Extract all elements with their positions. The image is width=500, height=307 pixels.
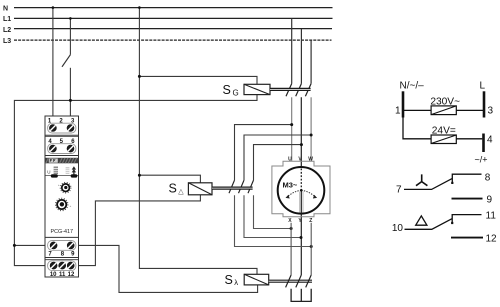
svg-text:10: 10: [392, 223, 404, 234]
contactor coil SD: [188, 183, 212, 195]
delta branch V to column C: [254, 145, 302, 181]
node delta branch V: [300, 143, 303, 146]
front panel indicators: [46, 166, 79, 177]
SD linkage: [212, 187, 253, 190]
svg-text:3: 3: [488, 106, 494, 117]
timer module PCG-417 body: [45, 116, 79, 277]
bus L1: [3, 16, 333, 23]
svg-text:PCG-417: PCG-417: [51, 229, 73, 235]
SA contact 3 arm: [306, 275, 312, 287]
contact 9 stub: [452, 198, 483, 200]
wire SD contact2 output to Y: [244, 195, 301, 237]
node X junction: [290, 227, 293, 230]
bus L3: [3, 38, 332, 45]
wire X column: [290, 223, 292, 275]
phase column L1 upper: [291, 18, 293, 83]
wire 1 down to 24V branch: [403, 110, 482, 138]
star symbol: [416, 174, 427, 185]
knob 1: [58, 182, 71, 193]
contact 12 stub: [451, 237, 483, 239]
wire SD coil top feed: [139, 175, 200, 183]
phase column L3 upper: [310, 40, 312, 83]
svg-text:L1: L1: [3, 16, 11, 23]
SG contact 1 arm: [286, 84, 292, 97]
switch blade: [62, 55, 70, 67]
node Z junction: [310, 245, 313, 248]
svg-text:230V~: 230V~: [430, 96, 460, 107]
motor M1 circle: [278, 167, 325, 214]
node N tap long feed: [138, 6, 141, 9]
supply element 24V: [431, 126, 456, 144]
bus L2: [3, 27, 332, 34]
label S lambda: [225, 273, 239, 287]
svg-text:12: 12: [486, 233, 498, 244]
svg-text:11: 11: [59, 272, 66, 278]
delta branch W to column B: [244, 135, 311, 180]
svg-text:9: 9: [487, 194, 493, 205]
svg-text:4: 4: [487, 135, 493, 146]
module label strip: [45, 158, 78, 164]
wire 1 to 3: [404, 109, 483, 111]
star point shorting bracket: [291, 289, 311, 302]
svg-text:N: N: [3, 5, 8, 12]
terminal bar 4: [484, 134, 494, 153]
svg-text:L3: L3: [3, 38, 11, 45]
contactor coil SA (star): [244, 274, 269, 285]
SG linkage: [270, 88, 311, 91]
svg-text:S: S: [169, 181, 177, 195]
label S delta: [169, 181, 185, 195]
svg-text:λ: λ: [234, 278, 238, 287]
wire SD contact3 output to X: [254, 195, 292, 228]
wire terminal 9 to SA coil bottom: [75, 245, 258, 292]
SD contact 2 arm: [239, 180, 245, 193]
delta branch U to column A: [235, 125, 292, 181]
wire L1 to switch: [69, 18, 71, 54]
svg-text:10: 10: [50, 272, 57, 278]
SG contact 3 arm: [305, 84, 311, 97]
terminal screw 7: [50, 242, 57, 249]
label SG: [223, 83, 239, 98]
svg-text:N/~/–: N/~/–: [400, 81, 425, 92]
phase column L3 lower to motor W: [310, 97, 312, 161]
relay contact 10-11: [405, 215, 482, 230]
terminal screw 4: [49, 145, 56, 152]
svg-text:1: 1: [395, 106, 401, 117]
supply element 230V: [430, 96, 460, 114]
delta symbol: [416, 216, 427, 225]
svg-text:L: L: [480, 81, 486, 92]
terminal box 4-5-6: [45, 137, 79, 156]
motor terminal labels U V W: [288, 156, 313, 162]
terminal box 10-11-12: [45, 260, 79, 279]
phase column L2 upper: [300, 29, 302, 84]
wire terminal 12 to SD coil bottom: [75, 195, 201, 266]
svg-text:S: S: [223, 83, 231, 97]
SA contact 1 arm: [286, 275, 292, 287]
node SD top branch: [138, 174, 141, 177]
wire SD contact1 output to Z: [235, 195, 312, 246]
node N tap T1: [52, 6, 55, 9]
wire SG coil bottom to terminals 7 and 10: [14, 95, 257, 266]
svg-text:△: △: [178, 189, 184, 196]
svg-text:W: W: [308, 156, 313, 162]
node L1 tap: [69, 17, 72, 20]
node switch line joins coil-bottom wire: [69, 99, 72, 102]
wire switch to module terminal 3: [69, 68, 71, 126]
phase column L1 lower to motor U: [291, 97, 293, 161]
SD contact 3 arm: [248, 180, 254, 193]
svg-text:7: 7: [396, 185, 402, 196]
terminal bar 1: [395, 91, 403, 117]
motor terminal frame: [272, 161, 330, 217]
SA contact 2 arm: [296, 275, 302, 287]
wire SG coil top feed: [139, 76, 257, 84]
svg-text:+: +: [58, 183, 60, 187]
node Y junction: [300, 236, 303, 239]
svg-text:11: 11: [486, 210, 497, 221]
svg-text:U: U: [288, 156, 292, 162]
node delta branch W: [310, 134, 313, 137]
terminal screw 11: [59, 262, 66, 269]
svg-text:24V=: 24V=: [432, 126, 456, 137]
terminal bar 3: [484, 91, 494, 117]
node branch to terminal 7: [13, 244, 16, 247]
knob 2: [56, 198, 72, 210]
contactor coil SG: [244, 84, 270, 94]
terminal box 1-2-3: [45, 119, 79, 136]
svg-text:12: 12: [68, 272, 75, 278]
terminal screw 6: [67, 145, 74, 152]
node SG top branch: [138, 75, 141, 78]
SA linkage: [269, 280, 312, 283]
wire N to module terminal 1: [52, 8, 54, 126]
motor winding symbol: [286, 169, 318, 214]
svg-text:S: S: [225, 273, 233, 287]
wire Z column: [310, 223, 312, 275]
svg-text:U: U: [47, 170, 50, 175]
node delta branch U: [290, 123, 293, 126]
SD contact 1 arm: [229, 180, 235, 193]
svg-text:G: G: [233, 88, 239, 97]
motor terminal labels X Y Z: [288, 218, 312, 224]
relay contact 7-8: [404, 174, 482, 189]
terminal screw 3: [67, 125, 74, 132]
svg-text:+: +: [70, 204, 72, 208]
phase column L2 lower through motor to SA contact: [300, 97, 302, 275]
terminal screw 12: [67, 262, 74, 269]
svg-text:~/+: ~/+: [475, 155, 488, 165]
terminal screw 1: [49, 125, 56, 132]
wire N tap long feed (to coils SG/SD/SA tops): [139, 8, 257, 275]
svg-text:M3~: M3~: [283, 180, 298, 189]
bus N: [3, 5, 333, 12]
svg-text:L2: L2: [3, 27, 11, 34]
terminal box 7-8-9: [45, 237, 79, 257]
terminal screw 10: [50, 262, 57, 269]
terminal screw 9: [67, 242, 74, 249]
SG contact 2 arm: [296, 84, 302, 97]
svg-text:8: 8: [485, 172, 491, 183]
